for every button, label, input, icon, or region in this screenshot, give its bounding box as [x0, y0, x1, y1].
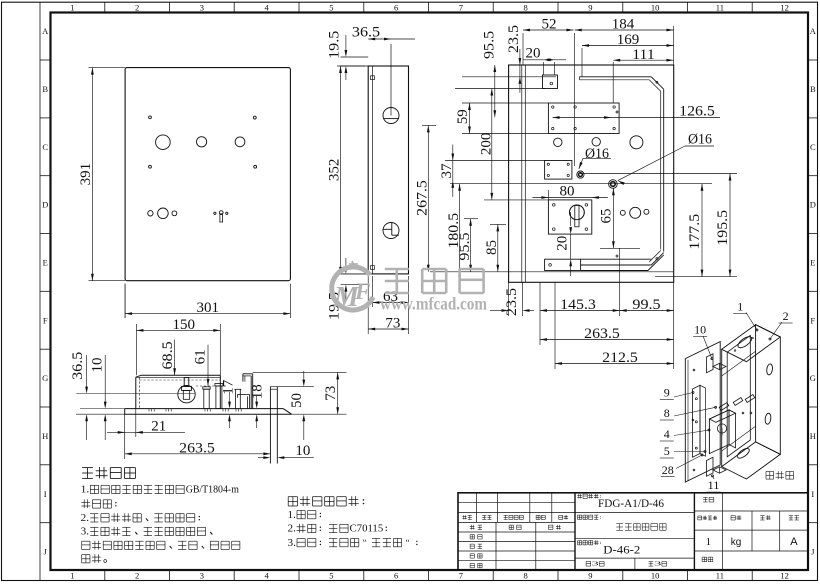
top tab — [543, 75, 558, 89]
dim 36.5 top — [368, 38, 415, 40]
svg-text:12: 12 — [780, 571, 789, 581]
left middle rect — [545, 161, 572, 180]
svg-text:3: 3 — [200, 571, 204, 581]
svg-text:11: 11 — [716, 571, 724, 581]
dim 10 right — [258, 457, 268, 459]
keyhole in front view — [219, 211, 223, 215]
washer 2 — [609, 180, 618, 189]
svg-text:2.: 2. — [81, 512, 89, 524]
18 stub part — [238, 393, 250, 395]
dim 263.5 bottom — [124, 437, 126, 459]
svg-text:A: A — [42, 26, 49, 36]
svg-text:126.5: 126.5 — [679, 103, 715, 119]
svg-text:73: 73 — [323, 386, 339, 401]
technical requirements text — [82, 467, 93, 469]
dim 61 — [207, 345, 209, 386]
dim 65 — [612, 188, 614, 248]
svg-text:G: G — [810, 373, 816, 383]
dim 50 — [303, 371, 305, 381]
svg-text:4: 4 — [264, 571, 269, 581]
svg-text:D: D — [42, 200, 48, 210]
section view dims — [124, 284, 126, 318]
svg-text:H: H — [810, 431, 816, 441]
left side dims of back view — [455, 88, 545, 90]
svg-text:4: 4 — [664, 427, 670, 441]
svg-text:1: 1 — [70, 571, 74, 581]
svg-text:50: 50 — [289, 393, 305, 408]
svg-text:5: 5 — [329, 571, 333, 581]
title block texts — [578, 494, 580, 499]
upper rectangle plate — [548, 103, 619, 134]
holes row — [554, 138, 562, 146]
svg-text:GB/T1804-m: GB/T1804-m — [186, 484, 240, 496]
svg-text:36.5: 36.5 — [70, 352, 86, 380]
svg-text:Ø16: Ø16 — [688, 131, 712, 147]
svg-text:4: 4 — [264, 2, 269, 12]
dim 150 — [135, 324, 137, 375]
svg-text:23.5: 23.5 — [504, 288, 520, 316]
front view holes — [149, 116, 152, 119]
svg-text:9: 9 — [664, 386, 670, 400]
svg-text:169: 169 — [617, 32, 640, 48]
clip part 10 — [707, 354, 714, 373]
svg-text:8: 8 — [664, 406, 670, 420]
svg-text:3.: 3. — [81, 526, 89, 538]
svg-text:21: 21 — [151, 418, 166, 434]
svg-text:267.5: 267.5 — [415, 180, 431, 216]
dim 391 — [89, 67, 126, 69]
svg-text:145.3: 145.3 — [560, 297, 596, 313]
svg-text:200: 200 — [478, 133, 494, 156]
dim 126.5 — [553, 117, 720, 119]
bottom strip and tab — [545, 259, 581, 270]
right dims 177.5 195.5 — [580, 173, 737, 175]
svg-text:I: I — [44, 489, 47, 499]
weld tick marks — [148, 409, 150, 412]
svg-text:9: 9 — [588, 571, 592, 581]
svg-text:E: E — [810, 257, 815, 267]
svg-text:212.5: 212.5 — [602, 350, 638, 366]
dim 21 — [124, 414, 126, 437]
svg-text:150: 150 — [172, 317, 195, 333]
side view — [368, 66, 408, 274]
box frame part 2 — [722, 325, 781, 362]
oval holes on box — [736, 335, 753, 350]
svg-text:177.5: 177.5 — [687, 214, 703, 250]
svg-text:7: 7 — [459, 571, 463, 581]
svg-text:2: 2 — [783, 309, 789, 323]
dim 10 left — [104, 355, 106, 402]
svg-text:10: 10 — [651, 2, 660, 12]
svg-text:D: D — [810, 200, 816, 210]
svg-text:391: 391 — [78, 163, 94, 186]
svg-text:A: A — [810, 26, 817, 36]
svg-text:Ø16: Ø16 — [585, 146, 609, 162]
lock assembly parts 4 5 — [709, 410, 729, 454]
dim 352 — [337, 65, 368, 67]
small studs — [203, 387, 210, 389]
svg-text:9: 9 — [588, 2, 592, 12]
svg-text:19.5: 19.5 — [326, 31, 342, 59]
svg-text:37: 37 — [439, 163, 455, 179]
svg-text:1: 1 — [737, 300, 743, 314]
back view top dims — [522, 33, 524, 65]
section box — [141, 374, 220, 376]
svg-text:8: 8 — [523, 571, 527, 581]
svg-text:F: F — [354, 279, 370, 304]
svg-text:263.5: 263.5 — [584, 326, 620, 342]
svg-text:65: 65 — [598, 209, 614, 224]
svg-text:17: 17 — [220, 379, 236, 395]
svg-text:C: C — [42, 142, 48, 152]
svg-text:C: C — [810, 142, 816, 152]
svg-text:2.: 2. — [288, 523, 296, 535]
svg-text:A: A — [790, 536, 798, 548]
svg-text:80: 80 — [560, 183, 575, 199]
svg-text:D-46-2: D-46-2 — [603, 545, 640, 557]
dim 63 — [371, 276, 373, 307]
svg-text:99.5: 99.5 — [632, 297, 660, 313]
svg-text:263.5: 263.5 — [179, 440, 215, 456]
svg-text:8: 8 — [523, 2, 527, 12]
svg-text:20: 20 — [555, 236, 571, 251]
svg-text:3: 3 — [654, 562, 661, 568]
svg-text:C70115: C70115 — [350, 523, 384, 535]
svg-text:85: 85 — [484, 240, 500, 255]
svg-text:H: H — [42, 431, 48, 441]
svg-text:3: 3 — [592, 562, 599, 568]
back view plate — [509, 65, 674, 282]
svg-text:2: 2 — [135, 571, 139, 581]
bottom dims of back view — [508, 282, 510, 316]
svg-text:3.: 3. — [288, 537, 296, 549]
svg-text:1.: 1. — [81, 484, 90, 496]
clip part 11 — [707, 457, 714, 476]
svg-text:301: 301 — [197, 300, 220, 316]
svg-text:F: F — [810, 315, 815, 325]
svg-text:61: 61 — [193, 349, 209, 364]
dim 36.5 left — [86, 355, 88, 387]
title block — [458, 493, 808, 570]
pins part 8 — [719, 403, 729, 411]
svg-text:352: 352 — [327, 159, 343, 182]
back panel part 1 — [685, 342, 720, 482]
svg-text:11: 11 — [716, 2, 724, 12]
dim 19.5 bottom — [341, 273, 369, 275]
dim 19.5 top — [341, 56, 369, 58]
reference figure label — [766, 471, 774, 473]
watermark — [332, 261, 373, 310]
svg-text:kg: kg — [731, 537, 742, 548]
zone bands — [104, 2, 106, 12]
dim 95.5 top left — [494, 65, 496, 117]
washer 1 — [577, 171, 584, 178]
J hook part — [243, 373, 253, 375]
svg-text:www.mfcad.com: www.mfcad.com — [380, 294, 487, 314]
svg-text:184: 184 — [612, 17, 635, 33]
17 part — [234, 389, 236, 408]
lock box — [548, 200, 591, 234]
svg-text:5: 5 — [329, 2, 333, 12]
svg-text:B: B — [42, 84, 48, 94]
svg-text:1: 1 — [70, 2, 74, 12]
svg-text:10: 10 — [694, 323, 706, 337]
svg-text:6: 6 — [394, 2, 398, 12]
svg-text:68.5: 68.5 — [160, 341, 176, 369]
svg-text:23.5: 23.5 — [506, 25, 522, 53]
process flow text — [288, 496, 297, 498]
section view base plate edge-on — [125, 408, 284, 410]
svg-text:10: 10 — [295, 443, 310, 459]
svg-text:95.5: 95.5 — [457, 232, 473, 260]
svg-text:E: E — [43, 257, 48, 267]
small holes near lock — [620, 210, 625, 215]
strip part 9 — [693, 385, 701, 457]
svg-text:6: 6 — [394, 571, 398, 581]
svg-text:52: 52 — [542, 17, 557, 33]
svg-text:195.5: 195.5 — [715, 210, 731, 246]
side view screw symbols — [383, 108, 399, 124]
svg-text:5: 5 — [664, 444, 670, 458]
svg-text:111: 111 — [632, 47, 655, 63]
dim 73 side — [367, 276, 369, 334]
svg-text:1: 1 — [706, 536, 712, 548]
svg-text:1.: 1. — [288, 509, 296, 521]
dim 68.5 — [174, 340, 176, 376]
svg-text:59: 59 — [455, 109, 471, 124]
front view door plate — [125, 68, 290, 281]
svg-text:10: 10 — [89, 358, 105, 373]
svg-text:20: 20 — [526, 46, 541, 62]
svg-text:95.5: 95.5 — [481, 31, 497, 59]
dim 20 lock — [570, 212, 572, 226]
svg-text:I: I — [811, 489, 814, 499]
svg-text:12: 12 — [780, 2, 789, 12]
svg-text:2: 2 — [135, 2, 139, 12]
svg-text:28: 28 — [662, 463, 674, 477]
svg-text:11: 11 — [708, 478, 720, 492]
svg-text:10: 10 — [651, 571, 660, 581]
dim 23.5 top left — [519, 49, 521, 93]
dims 17 18 — [229, 392, 231, 403]
dim 80 — [547, 190, 549, 200]
dim 301 — [124, 284, 126, 318]
svg-text:3: 3 — [200, 2, 204, 12]
dim 73 section — [253, 371, 347, 373]
svg-text:G: G — [42, 373, 48, 383]
C channel bracket — [579, 76, 651, 78]
right L bracket — [269, 387, 271, 464]
svg-text:73: 73 — [385, 316, 400, 332]
svg-text:FDG-A1/D-46: FDG-A1/D-46 — [598, 498, 664, 510]
svg-text:36.5: 36.5 — [352, 25, 380, 41]
svg-text:B: B — [810, 84, 816, 94]
svg-text:7: 7 — [459, 2, 463, 12]
svg-text:F: F — [43, 315, 48, 325]
svg-text:18: 18 — [250, 384, 266, 399]
cylinder boss and circle — [184, 378, 189, 387]
